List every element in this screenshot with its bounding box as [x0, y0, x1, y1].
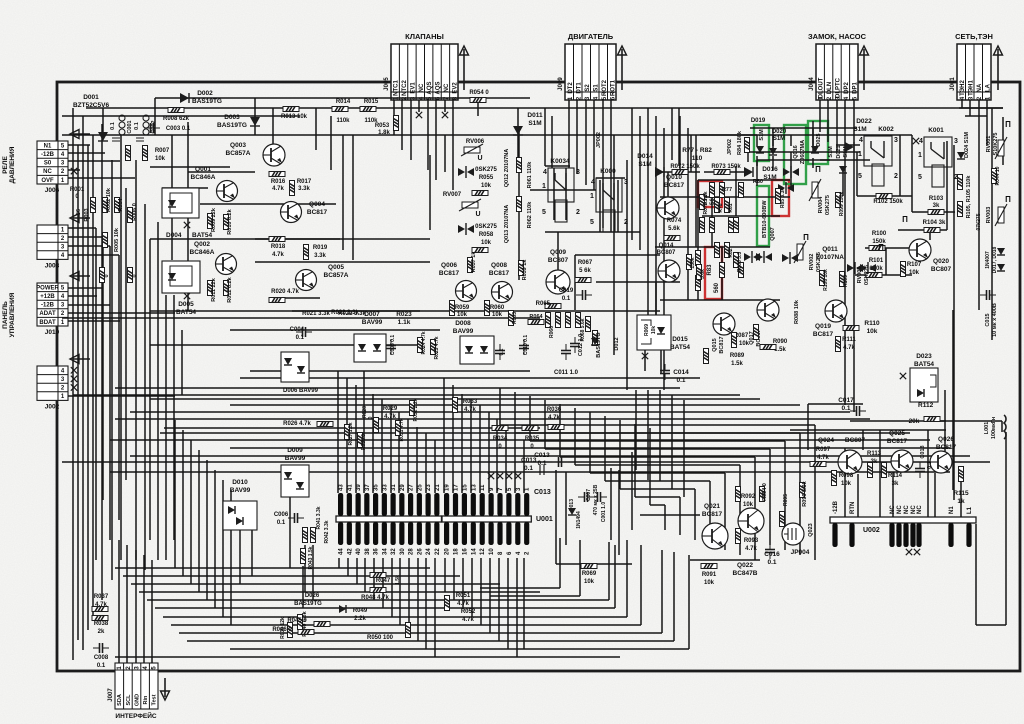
svg-text:Q020: Q020 — [933, 258, 949, 265]
svg-text:R80: R80 — [753, 179, 763, 185]
capacitor C018 — [915, 462, 925, 478]
svg-text:C011 1.0: C011 1.0 — [554, 370, 579, 376]
resistor R069 bottom — [581, 564, 597, 569]
svg-text:BZT52C5V6: BZT52C5V6 — [73, 102, 110, 109]
resistor R099 150k — [836, 193, 841, 208]
svg-text:Q011: Q011 — [822, 246, 838, 253]
connector comb U001 pins — [336, 484, 441, 555]
svg-text:Q004: Q004 — [309, 201, 325, 208]
svg-text:34: 34 — [382, 548, 388, 555]
resistor R025 — [431, 340, 436, 355]
resistor R109 — [840, 272, 845, 287]
svg-text:R047: R047 — [376, 578, 391, 584]
svg-text:R061 110k: R061 110k — [527, 161, 533, 189]
svg-text:GND: GND — [134, 694, 140, 706]
svg-text:R115: R115 — [953, 490, 969, 497]
resistor R096 — [800, 483, 805, 498]
svg-text:3: 3 — [894, 137, 898, 144]
svg-text:R020 4.7k: R020 4.7k — [271, 289, 299, 295]
svg-text:BC847B: BC847B — [733, 570, 758, 577]
svg-text:R026 4.7k: R026 4.7k — [283, 421, 311, 427]
svg-text:П: П — [803, 233, 809, 242]
resistor R002 — [103, 198, 108, 213]
diode D025 in green3 — [811, 146, 819, 153]
svg-text:R014: R014 — [336, 99, 351, 105]
svg-text:U: U — [475, 211, 480, 218]
svg-text:R058: R058 — [479, 232, 494, 238]
svg-text:C004: C004 — [290, 327, 305, 333]
svg-text:J007: J007 — [108, 688, 114, 702]
svg-text:24: 24 — [426, 548, 432, 555]
svg-text:D001: D001 — [83, 94, 99, 101]
diode D024 S1M — [957, 152, 965, 159]
svg-text:D022: D022 — [856, 118, 872, 125]
svg-text:C013: C013 — [534, 452, 550, 459]
svg-text:BC846A: BC846A — [191, 174, 216, 181]
svg-text:ЗАМОК, НАСОС: ЗАМОК, НАСОС — [808, 32, 867, 41]
svg-text:0.1: 0.1 — [110, 122, 116, 130]
svg-text:R043 1.5k: R043 1.5k — [308, 546, 314, 569]
svg-text:R010 8.2k: R010 8.2k — [227, 208, 233, 234]
svg-text:JP002: JP002 — [727, 139, 733, 155]
svg-text:BC817: BC817 — [702, 511, 723, 518]
capacitor C010 — [519, 339, 529, 355]
resistors 150k 5.6k rotated near Q014 — [687, 255, 692, 270]
svg-text:17: 17 — [454, 484, 460, 491]
svg-text:R045 0: R045 0 — [287, 618, 307, 624]
resistors R105 110k — [958, 175, 963, 190]
svg-text:NC: NC — [897, 505, 903, 514]
svg-text:R044 10: R044 10 — [995, 166, 1001, 185]
svg-text:D002: D002 — [197, 90, 213, 97]
resistor R095 — [780, 512, 785, 527]
svg-text:5.6k: 5.6k — [668, 226, 680, 232]
svg-text:3.3k: 3.3k — [298, 186, 310, 192]
svg-text:Q015: Q015 — [712, 338, 718, 351]
resistor R059b 1k — [519, 261, 524, 276]
svg-text:ИНТЕРФЕЙС: ИНТЕРФЕЙС — [115, 711, 156, 720]
svg-text:3: 3 — [624, 179, 628, 186]
resistor R016 — [269, 172, 285, 177]
svg-text:R85 3.3k: R85 3.3k — [780, 188, 786, 209]
schematic frame border — [57, 82, 1020, 671]
resistors R039 R040 — [288, 623, 293, 638]
svg-text:R021 3.3k: R021 3.3k — [302, 311, 330, 317]
svg-text:110: 110 — [692, 155, 703, 162]
svg-text:BC817: BC817 — [439, 270, 460, 277]
transistor Q017 — [757, 299, 779, 321]
svg-text:5: 5 — [918, 174, 922, 181]
svg-text:R036: R036 — [547, 407, 562, 413]
svg-text:0.1: 0.1 — [296, 335, 305, 341]
resistor R020 — [269, 298, 285, 303]
svg-text:0: 0 — [132, 274, 138, 277]
diode box D006 BAV99 — [281, 352, 309, 382]
svg-text:R041 3.3k: R041 3.3k — [316, 506, 322, 529]
connector comb U002 — [830, 500, 976, 555]
capacitor C012 — [570, 337, 580, 353]
svg-text:0SK275: 0SK275 — [864, 265, 870, 285]
svg-text:Q022: Q022 — [737, 562, 753, 569]
green highlight box D025 — [808, 121, 828, 164]
svg-text:R031 4.7k: R031 4.7k — [399, 418, 405, 441]
svg-text:1.5k: 1.5k — [731, 361, 743, 367]
triac 0SK275 lower — [458, 223, 474, 235]
resistor R094 0 — [760, 487, 765, 502]
resistor R005 — [103, 233, 108, 248]
capacitor C004 — [296, 327, 312, 337]
svg-text:41: 41 — [347, 484, 353, 491]
svg-text:3: 3 — [576, 169, 580, 176]
svg-text:Q001: Q001 — [195, 166, 211, 173]
svg-text:R012 8.2k: R012 8.2k — [227, 276, 233, 302]
svg-text:СЕТЬ,ТЭН: СЕТЬ,ТЭН — [955, 32, 993, 41]
svg-text:0: 0 — [368, 416, 374, 419]
svg-text:0.1: 0.1 — [841, 405, 850, 412]
svg-text:ТЭН2: ТЭН2 — [960, 80, 966, 96]
svg-text:56: 56 — [76, 209, 82, 215]
svg-text:1N1494: 1N1494 — [576, 511, 582, 529]
svg-text:КЛАПАНЫ: КЛАПАНЫ — [405, 32, 444, 41]
resistor R063 — [509, 311, 514, 326]
svg-text:S1M: S1M — [759, 129, 765, 141]
svg-text:R005 10k: R005 10k — [114, 227, 120, 252]
svg-text:D014: D014 — [637, 153, 653, 160]
svg-text:D026: D026 — [305, 593, 320, 599]
svg-text:100мкГн: 100мкГн — [991, 417, 997, 439]
svg-text:C005 0.1: C005 0.1 — [390, 335, 396, 356]
svg-text:R095: R095 — [783, 494, 789, 506]
svg-text:R094 0: R094 0 — [762, 483, 768, 501]
inductor L001 — [1004, 415, 1006, 439]
svg-text:C015: C015 — [985, 313, 991, 326]
svg-text:1N4007: 1N4007 — [985, 251, 991, 269]
svg-text:U: U — [477, 155, 482, 162]
svg-text:R037: R037 — [94, 594, 109, 600]
svg-text:R027 1.5k: R027 1.5k — [348, 422, 354, 445]
svg-text:0SK275: 0SK275 — [475, 167, 497, 173]
svg-text:18: 18 — [454, 548, 460, 555]
svg-text:BAS19TG: BAS19TG — [294, 601, 322, 607]
svg-text:3: 3 — [954, 138, 958, 145]
connector J005 КЛАПАНЫ — [384, 32, 469, 100]
svg-text:R042 3.3k: R042 3.3k — [324, 520, 330, 543]
svg-text:R77 - R82: R77 - R82 — [682, 147, 712, 154]
svg-text:NC: NC — [444, 83, 450, 92]
capacitor C003 — [144, 123, 160, 133]
svg-text:0.1: 0.1 — [134, 122, 140, 130]
svg-text:1.1k: 1.1k — [398, 319, 411, 326]
resistor R85 in red2 — [776, 189, 781, 204]
svg-text:23: 23 — [426, 484, 432, 491]
svg-text:-12В: -12В — [833, 500, 839, 514]
svg-text:10k: 10k — [867, 328, 878, 335]
svg-text:R069: R069 — [644, 324, 650, 336]
svg-text:16: 16 — [462, 548, 468, 555]
svg-text:Q008: Q008 — [491, 262, 507, 269]
svg-text:1: 1 — [542, 183, 546, 190]
resistor R012 — [224, 281, 229, 296]
svg-text:R060: R060 — [490, 305, 505, 311]
svg-text:SCL: SCL — [126, 694, 132, 706]
resistor R011 — [208, 281, 213, 296]
capacitor C016 — [765, 543, 775, 559]
resistors R041 R042 — [303, 528, 308, 543]
svg-text:C001: C001 — [127, 120, 133, 133]
svg-text:10k: 10k — [704, 580, 715, 586]
svg-text:C012 1.0: C012 1.0 — [578, 334, 584, 356]
svg-text:Q023: Q023 — [808, 523, 814, 536]
svg-text:R059 1k: R059 1k — [522, 259, 528, 281]
svg-text:U002: U002 — [863, 527, 880, 534]
connector J006 — [37, 130, 90, 195]
svg-text:25: 25 — [417, 484, 423, 491]
svg-text:10 мк x 400В: 10 мк x 400В — [992, 303, 998, 337]
svg-text:R104 3k: R104 3k — [923, 220, 946, 226]
svg-text:0SK275: 0SK275 — [825, 195, 831, 215]
svg-text:R003: R003 — [84, 208, 90, 221]
resistor R108 — [820, 271, 825, 286]
green highlight box Q016 — [784, 125, 806, 184]
svg-text:3.3k: 3.3k — [314, 253, 326, 259]
svg-text:R063: R063 — [512, 312, 518, 324]
svg-text:C018: C018 — [920, 445, 926, 458]
svg-text:D019: D019 — [751, 118, 766, 124]
svg-text:28: 28 — [409, 548, 415, 555]
svg-text:D016: D016 — [762, 166, 778, 173]
svg-text:560: 560 — [714, 282, 720, 293]
svg-text:33: 33 — [382, 484, 388, 491]
capacitor C014 — [660, 364, 670, 380]
transistor Q015 — [713, 313, 735, 335]
svg-text:R013 10k: R013 10k — [281, 114, 308, 120]
resistor R030 — [358, 433, 363, 448]
svg-text:43: 43 — [339, 484, 345, 491]
svg-text:4.7k: 4.7k — [745, 546, 757, 552]
svg-text:ПАНЕЛЬ: ПАНЕЛЬ — [2, 301, 9, 329]
svg-text:R054 0: R054 0 — [469, 90, 489, 96]
svg-text:R091: R091 — [702, 572, 717, 578]
svg-text:1k: 1k — [957, 498, 965, 505]
svg-text:13: 13 — [471, 484, 477, 491]
svg-text:R110: R110 — [864, 320, 880, 327]
svg-text:S1: S1 — [593, 84, 599, 92]
svg-text:ROT1: ROT1 — [610, 79, 616, 96]
diode box D005 BAT54 — [162, 261, 200, 293]
svg-text:C019: C019 — [559, 288, 574, 294]
svg-text:П: П — [1005, 120, 1011, 129]
svg-text:10k: 10k — [841, 481, 852, 487]
svg-text:R001: R001 — [70, 187, 85, 193]
svg-text:31: 31 — [391, 484, 397, 491]
text D012 — [613, 330, 615, 355]
svg-text:D006 BAV99: D006 BAV99 — [283, 388, 319, 394]
connector J001 СЕТЬ,ТЭН — [950, 32, 1003, 100]
svg-text:R064: R064 — [529, 314, 543, 320]
resistor R013 — [283, 107, 299, 112]
svg-text:4: 4 — [591, 179, 595, 186]
svg-text:37: 37 — [365, 484, 371, 491]
svg-text:R105, R105 110k: R105, R105 110k — [966, 175, 972, 219]
resistors R061 R062 vertical labels — [517, 158, 522, 173]
svg-text:R112: R112 — [918, 402, 934, 409]
svg-text:ADAT: ADAT — [39, 311, 56, 317]
svg-text:POWER: POWER — [36, 285, 59, 291]
svg-text:УПРАВЛЕНИЯ: УПРАВЛЕНИЯ — [9, 292, 16, 337]
svg-text:Q024: Q024 — [818, 437, 834, 444]
connector comb U001 pins — [442, 484, 531, 555]
svg-text:R046 0: R046 0 — [272, 627, 292, 633]
svg-text:S1M: S1M — [828, 146, 834, 158]
resistor R098 — [832, 471, 837, 486]
svg-text:NA: NA — [977, 83, 983, 92]
resistor R064 — [528, 320, 544, 325]
svg-text:R072 150k: R072 150k — [670, 164, 700, 170]
svg-text:1: 1 — [590, 193, 594, 200]
svg-text:K001: K001 — [928, 127, 944, 134]
svg-text:0.1: 0.1 — [499, 348, 505, 355]
svg-text:BC817: BC817 — [489, 270, 510, 277]
wire mesh horizontals — [62, 98, 1006, 657]
capacitor C009 — [495, 344, 505, 360]
svg-text:+12В: +12В — [40, 294, 55, 300]
resistors R034 R035 — [492, 426, 508, 431]
svg-text:BC807: BC807 — [845, 437, 866, 444]
resistor R092 — [736, 487, 741, 502]
svg-text:U001: U001 — [536, 516, 553, 523]
svg-text:R055: R055 — [479, 175, 494, 181]
svg-text:D015: D015 — [672, 336, 688, 343]
svg-text:D005: D005 — [178, 301, 194, 308]
svg-text:0.1: 0.1 — [927, 461, 933, 469]
resistor R004 — [115, 198, 120, 213]
svg-text:R096 3.9k: R096 3.9k — [802, 480, 808, 506]
svg-text:R015: R015 — [364, 99, 379, 105]
resistor R018 — [269, 237, 285, 242]
svg-text:R103: R103 — [929, 196, 944, 202]
svg-text:C016: C016 — [764, 551, 780, 558]
resistor R091 — [701, 564, 717, 569]
svg-text:D020: D020 — [772, 129, 787, 135]
svg-text:R033: R033 — [463, 399, 478, 405]
svg-text:R101: R101 — [869, 258, 884, 264]
resistor R060 — [485, 301, 490, 316]
svg-text:BC807: BC807 — [548, 257, 569, 264]
svg-text:BC817: BC817 — [936, 444, 957, 451]
green highlight box BTB10 — [757, 186, 769, 246]
svg-text:4.7k: 4.7k — [548, 415, 560, 421]
triac below D016 — [778, 182, 794, 194]
svg-text:S1M: S1M — [763, 174, 776, 181]
svg-text:П: П — [1005, 195, 1011, 204]
svg-text:DLOUT: DLOUT — [819, 77, 825, 98]
svg-text:Rin: Rin — [143, 695, 149, 705]
diode D015 BAT54 box — [637, 315, 671, 350]
red highlight box R76 — [698, 181, 722, 207]
svg-text:BAV99: BAV99 — [453, 328, 474, 335]
svg-text:BAT54: BAT54 — [176, 309, 196, 316]
svg-text:R017: R017 — [297, 179, 312, 185]
svg-text:J010: J010 — [45, 329, 60, 336]
svg-text:Q016: Q016 — [793, 145, 799, 158]
svg-text:NC: NC — [419, 83, 425, 92]
resistor column x130b — [128, 268, 133, 283]
svg-text:JP004: JP004 — [791, 549, 810, 556]
svg-text:C006: C006 — [274, 512, 289, 518]
diode after R073 — [744, 167, 753, 177]
svg-text:10k: 10k — [481, 240, 492, 246]
svg-text:RV003: RV003 — [986, 207, 992, 224]
svg-text:D024 S1M: D024 S1M — [964, 132, 970, 158]
svg-text:07К275: 07К275 — [976, 213, 982, 230]
resistor R113 — [868, 463, 873, 478]
svg-text:1.5k: 1.5k — [395, 575, 401, 585]
svg-text:S1M: S1M — [773, 136, 785, 142]
svg-text:1: 1 — [918, 152, 922, 159]
svg-text:0.1: 0.1 — [767, 559, 776, 566]
svg-text:AQS: AQS — [436, 81, 442, 94]
svg-text:R086 3.3: R086 3.3 — [737, 252, 743, 273]
svg-text:15: 15 — [462, 484, 468, 491]
resistor R033 — [453, 398, 458, 413]
svg-text:ДВИГАТЕЛЬ: ДВИГАТЕЛЬ — [568, 32, 614, 41]
svg-text:2.2k: 2.2k — [354, 616, 366, 622]
svg-text:5.6k: 5.6k — [700, 269, 706, 279]
svg-text:2: 2 — [624, 219, 628, 226]
svg-text:BC817: BC817 — [887, 438, 908, 445]
svg-text:R073 150k: R073 150k — [711, 164, 741, 170]
svg-text:10k: 10k — [909, 270, 920, 276]
svg-text:N1: N1 — [949, 506, 955, 514]
svg-text:BAS19TG: BAS19TG — [596, 332, 602, 357]
svg-text:3k: 3k — [892, 481, 899, 487]
svg-text:Q007: Q007 — [770, 227, 776, 240]
resistor R010 — [224, 215, 229, 230]
connector J002 — [37, 355, 90, 411]
svg-text:2k: 2k — [98, 629, 105, 635]
green highlight box D019 — [754, 125, 769, 161]
resistor R111 — [836, 337, 841, 352]
connector J009 ДВИГАТЕЛЬ — [558, 32, 627, 100]
resistor R072 150k — [672, 170, 688, 175]
svg-text:R83: R83 — [707, 264, 713, 276]
diode D013 BAS19TG — [591, 338, 599, 345]
svg-text:2: 2 — [576, 209, 580, 216]
svg-text:Q021: Q021 — [704, 503, 720, 510]
svg-text:R111: R111 — [842, 337, 856, 343]
svg-text:Z0607MA: Z0607MA — [800, 140, 806, 164]
resistor R093 — [736, 529, 741, 544]
resistor R014 — [332, 107, 348, 112]
extra resistors near C007 group — [586, 317, 591, 332]
svg-text:RTN: RTN — [850, 502, 856, 514]
svg-text:4.7k: 4.7k — [464, 407, 476, 413]
svg-text:BAT54: BAT54 — [914, 361, 934, 368]
resistor R006 — [128, 208, 133, 223]
svg-text:R065: R065 — [536, 301, 551, 307]
svg-text:R023: R023 — [396, 311, 412, 318]
diode D019 in green1 — [756, 146, 764, 153]
svg-text:BAS19TG: BAS19TG — [217, 122, 247, 129]
svg-text:BC807: BC807 — [657, 250, 676, 256]
svg-text:29: 29 — [400, 484, 406, 491]
svg-text:4.7k: 4.7k — [457, 601, 469, 607]
svg-text:Q006: Q006 — [441, 262, 457, 269]
svg-text:10k: 10k — [481, 183, 492, 189]
svg-text:R049: R049 — [353, 608, 368, 614]
connector J008 — [37, 214, 90, 270]
svg-text:14: 14 — [471, 548, 477, 555]
